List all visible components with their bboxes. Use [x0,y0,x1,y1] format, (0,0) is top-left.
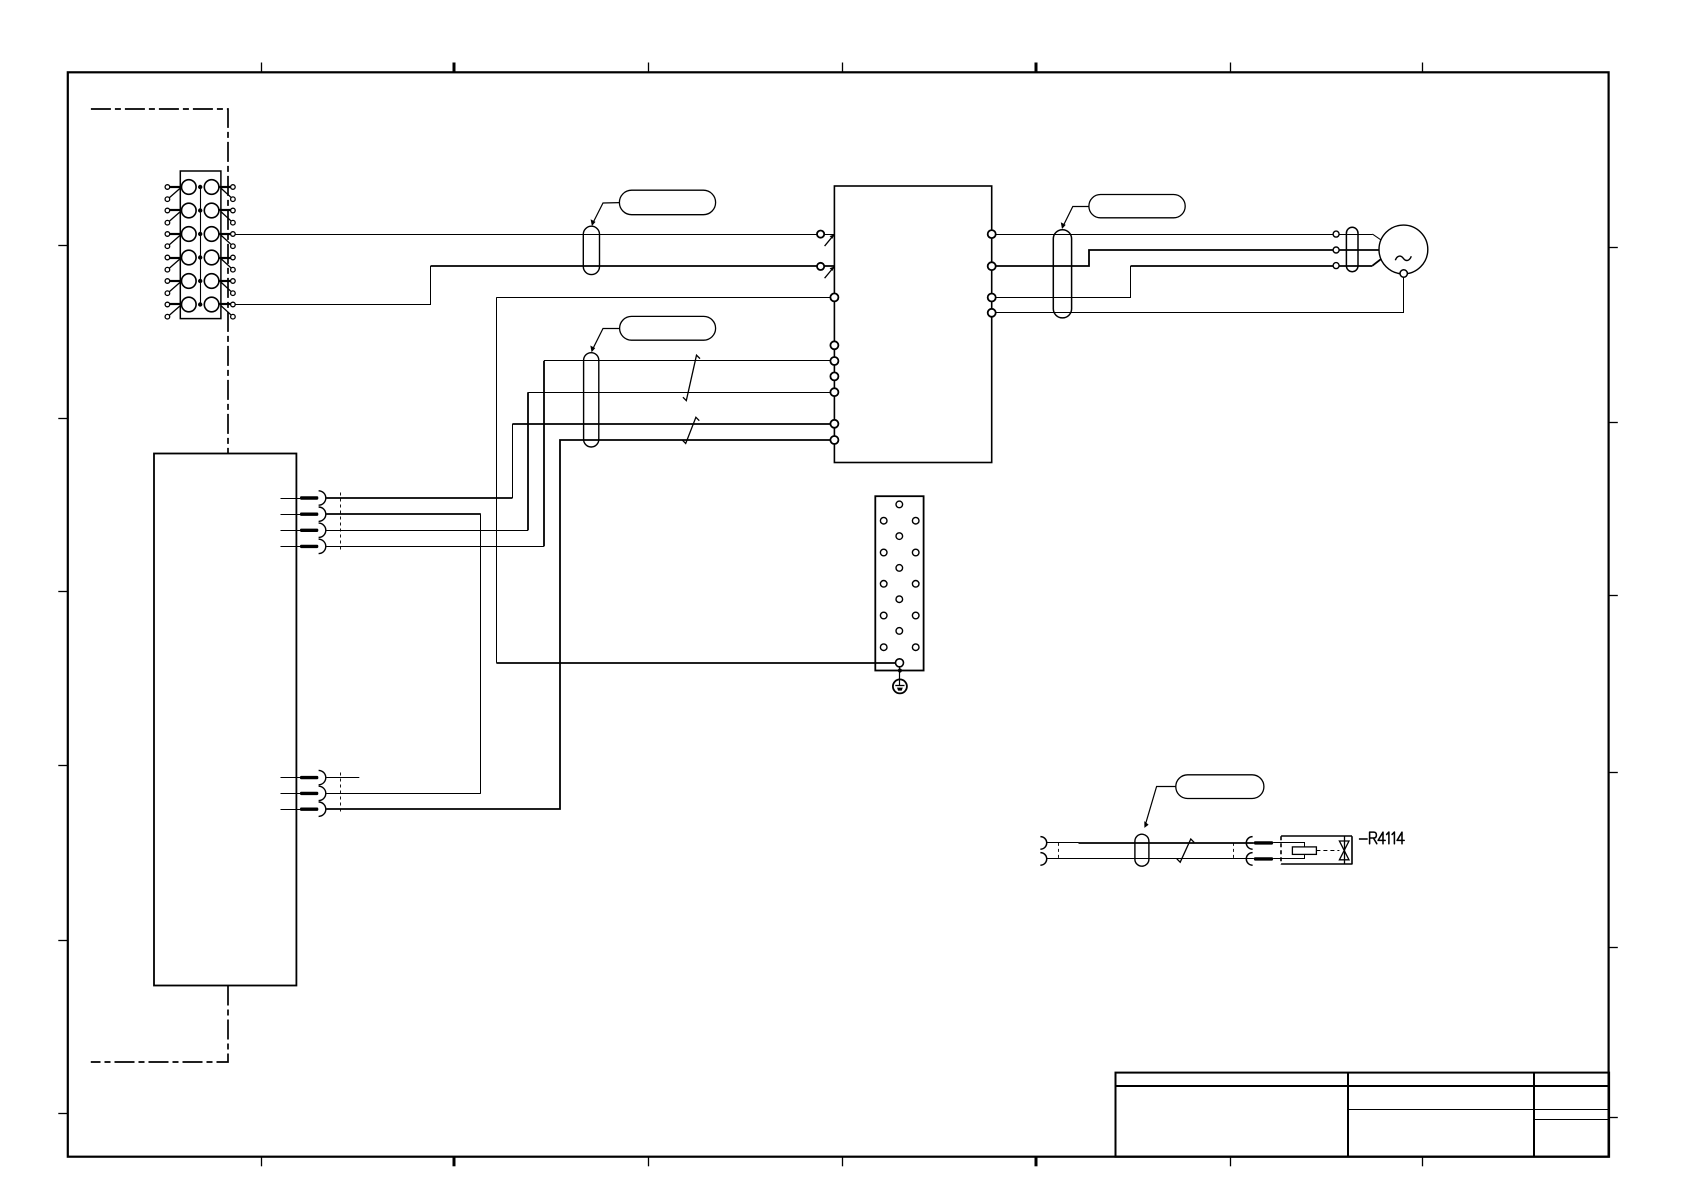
wire X1 row3 to A1 terminal 1 [235,234,834,236]
enclosure boundary dash-dot bottom [91,986,228,1063]
wire to R4114 conductor 2 [1047,858,1254,860]
wire pin4 to A1 [326,546,544,548]
cabinet unit A2 [154,454,296,986]
connector group line (right) [1233,843,1235,859]
cable sleeve W5 (capsule) [1135,834,1149,866]
wire A1 to motor phase 3 [996,266,1131,298]
connector pins A2 group 1 [281,498,301,500]
wire A1 terminal3 to earth strip [496,297,830,299]
motor bottom terminal [1400,270,1407,277]
A1 right terminals [988,230,996,238]
control box A1 [834,186,991,463]
motor inline terminals [1333,231,1339,237]
enclosure boundary dash-dot top [91,109,228,454]
callout label W5 [1176,775,1264,799]
junction dot at strip bottom [899,667,901,680]
callout label W2 [620,316,716,340]
A1 left terminals [817,231,824,238]
wire motor return to A1 terminal 4 [996,277,1404,312]
connector X1 (12-pole plug-socket block) [180,171,221,319]
conductor count slash (2 wires) [683,355,700,400]
stub wire group2 pin1 [326,777,359,779]
wire X1 row6 to A1 terminal 2 [235,266,430,305]
cable sleeve W3 (capsule) [1053,230,1071,318]
thermostat valve symbol [1344,836,1346,864]
wire jumper pin2 to group2 pin2 [326,513,481,515]
wire A1 to motor phase 2 (thick) [996,250,1379,266]
cable sleeve W1 (capsule) [583,226,599,274]
title block [1116,1073,1610,1157]
wire to R4114 conductor 1 [1047,842,1079,844]
motor M1 (AC) [1379,225,1428,274]
wire A1 to motor phase 1 [996,234,1373,236]
wire group2 pin3 to A1 (thick) [326,440,830,809]
connector pins A2 group 2 [281,777,301,779]
wire pin1 to A1 (thick) [326,497,512,499]
leader arrow W2 [593,329,620,349]
resistor R4114 housing [1280,836,1282,864]
frame zone tick marks [261,63,263,73]
connector group line (left) [1058,843,1060,859]
leader arrow W5 [1146,787,1176,824]
wire pin3 to A1 [326,530,528,532]
plug contacts into R4114 [1246,837,1252,850]
cable socket contacts (left pair) [1040,837,1046,850]
dashed link to thermostat [1316,850,1339,852]
heater element plug [1292,847,1316,855]
shield slash at A1 terminal 1 [825,234,835,246]
cable sleeve W2 (capsule) [584,353,599,447]
label -R4114 [1359,838,1368,840]
cable sleeve W4 at motor [1346,227,1358,271]
leader arrow W3 [1063,207,1089,226]
earth terminal strip X2 [875,496,923,670]
shield slash at A1 terminal 2 [825,267,835,279]
callout label W3 [1089,195,1185,218]
leader arrow W1 [593,203,619,223]
conductor count slash (2 thick wires) [682,417,699,443]
wire bars to heater plug [1273,843,1304,847]
protective earth symbol [893,679,907,693]
callout label W1 [619,190,715,215]
conductor count slash (R4114 pair) [1177,839,1194,862]
